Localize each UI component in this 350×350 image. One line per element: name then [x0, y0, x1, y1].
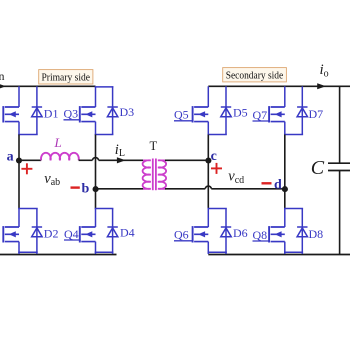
svg-text:Q7: Q7 [253, 108, 268, 122]
mosfet Q7 source riser [284, 122, 286, 135]
mosfet Q5 [193, 106, 209, 122]
node c [205, 157, 211, 163]
cell bar under Q1/D1 [18, 134, 38, 136]
diode D2 [32, 227, 42, 237]
svg-text:c: c [211, 149, 217, 164]
wire: node b to transformer primary bottom [96, 188, 144, 190]
cell bottom bar Q8/D8 [284, 251, 303, 253]
transformer T primary winding [143, 160, 151, 189]
mosfet Q4 source riser [95, 242, 97, 254]
polarity + (vcd) [211, 163, 222, 174]
svg-text:D3: D3 [120, 105, 135, 119]
svg-text:D6: D6 [233, 226, 248, 240]
mosfet Q5 source riser [207, 122, 209, 135]
mosfet Q1 [3, 106, 19, 122]
capacitor C branch bottom wire [339, 171, 341, 255]
mosfet Q2 source riser [18, 242, 20, 254]
wire: hop to transformer primary [99, 159, 144, 161]
wire: transformer secondary top to node c [165, 159, 208, 161]
input current arrow [0, 84, 6, 90]
mosfet Q6 drain riser [207, 209, 209, 228]
wire: leg A junction vertical [18, 135, 20, 209]
cell bar under Q7/D7 [284, 134, 303, 136]
mosfet Q1 source riser [18, 122, 20, 135]
cell bottom bar Q6/D6 [208, 251, 227, 253]
wire: primary bottom rail [0, 254, 117, 256]
wire: primary top rail [0, 85, 96, 87]
polarity - (vcd) [262, 182, 272, 184]
svg-text:b: b [82, 182, 90, 197]
capacitor C plates [328, 162, 350, 164]
svg-text:D4: D4 [120, 225, 135, 239]
diode D1 riser (through) [36, 86, 38, 134]
diode D5 riser (through) [225, 86, 227, 134]
wire: node a to inductor [19, 159, 41, 161]
transformer T core [152, 159, 154, 191]
mosfet Q5 drain riser [207, 86, 209, 107]
label box: Secondary side [223, 68, 287, 82]
svg-text:D5: D5 [233, 106, 248, 120]
wire hop over leg B [93, 158, 99, 161]
diode D2 riser (through) [36, 209, 38, 255]
mosfet Q4 [80, 226, 96, 242]
svg-text:Q3: Q3 [64, 107, 79, 121]
cell top bar Q8/D8 [284, 208, 303, 210]
label box: Primary side [39, 70, 93, 84]
wire: secondary top rail [208, 85, 350, 87]
mosfet Q6 [193, 226, 209, 242]
mosfet Q2 drain riser [18, 209, 20, 228]
inductor L [41, 153, 79, 160]
svg-text:Q6: Q6 [174, 228, 189, 242]
mosfet Q4 drain riser [95, 209, 97, 228]
diode D3 [107, 107, 117, 117]
current arrow iL [117, 157, 126, 163]
node b [93, 186, 99, 192]
diode D6 riser (through) [225, 209, 227, 255]
svg-text:Primary side: Primary side [42, 72, 91, 84]
svg-text:T: T [150, 139, 158, 153]
diode D4 [107, 227, 117, 237]
cell bottom bar Q2/D2 [18, 251, 38, 253]
svg-text:D2: D2 [44, 227, 59, 241]
svg-text:Secondary side: Secondary side [226, 70, 284, 82]
diode D7 riser (through) [301, 86, 303, 134]
wire: inductor to hop [79, 159, 93, 161]
svg-text:C: C [311, 157, 325, 179]
svg-text:Q4: Q4 [64, 227, 79, 241]
svg-text:D7: D7 [309, 107, 324, 121]
mosfet Q3 drain riser [95, 86, 97, 107]
mosfet Q2 [3, 226, 19, 242]
cell bottom bar Q4/D4 [95, 251, 114, 253]
transformer T secondary winding [158, 160, 166, 189]
diode D5 [221, 107, 231, 117]
wire: primary top blue bar to D3 [95, 86, 114, 88]
mosfet Q3 source riser [95, 122, 97, 135]
wire: leg B junction vertical [95, 135, 97, 209]
wire: secondary bottom rail [208, 254, 350, 256]
mosfet Q8 source riser [284, 242, 286, 254]
mosfet Q7 [269, 106, 285, 122]
diode D4 riser (through) [112, 209, 114, 255]
cell top bar Q6/D6 [208, 208, 227, 210]
diode D6 [221, 227, 231, 237]
diode D8 [297, 227, 307, 237]
svg-text:D1: D1 [44, 107, 59, 121]
output current arrow io [317, 83, 326, 89]
cell bar under Q3/D3 [95, 134, 114, 136]
wire: leg D junction vertical [284, 135, 286, 209]
wire: leg C junction vertical [207, 135, 209, 209]
mosfet Q3 [80, 106, 96, 122]
diode D1 [32, 107, 42, 117]
mosfet Q6 source riser [207, 242, 209, 254]
svg-text:Q8: Q8 [253, 228, 268, 242]
svg-text:Q5: Q5 [174, 108, 189, 122]
svg-text:D8: D8 [309, 227, 324, 241]
polarity + (vab) [21, 163, 32, 174]
capacitor C branch top wire [339, 86, 341, 163]
diode D3 riser (through) [112, 86, 114, 134]
svg-text:d: d [274, 178, 282, 193]
mosfet Q7 drain riser [284, 86, 286, 107]
svg-text:L: L [54, 135, 62, 150]
cell top bar Q4/D4 [95, 208, 114, 210]
diode D8 riser (through) [301, 209, 303, 255]
mosfet Q1 drain riser [18, 86, 20, 107]
diode D7 [297, 107, 307, 117]
cell bar under Q5/D5 [208, 134, 227, 136]
wire: hop to node d [211, 188, 284, 190]
wire: transformer secondary bottom to hop [165, 188, 205, 190]
svg-text:n: n [0, 69, 5, 83]
mosfet Q8 [269, 226, 285, 242]
svg-text:a: a [7, 150, 14, 165]
cell top bar Q2/D2 [18, 208, 38, 210]
wire hop over leg C [205, 186, 211, 189]
node a [16, 157, 22, 163]
polarity - (vab) [71, 186, 80, 188]
mosfet Q8 drain riser [284, 209, 286, 228]
node d [282, 186, 288, 192]
